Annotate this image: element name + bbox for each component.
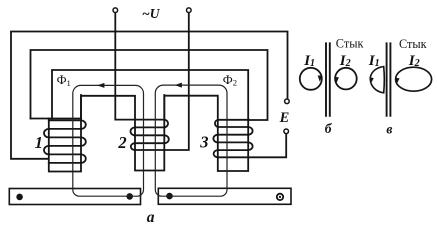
terminal T1: [113, 8, 118, 13]
flux loop PHI1 through coils 1-2 and left rail: [73, 85, 144, 196]
svg-text:Стык: Стык: [399, 37, 427, 51]
wire outer loop top/left: upper-E terminal to coil 1 lower-left: [11, 32, 288, 159]
svg-text:а: а: [147, 209, 155, 225]
flux arrow PHI2: [175, 83, 182, 88]
svg-text:I1: I1: [368, 53, 380, 69]
svg-text:Ф2: Ф2: [223, 73, 237, 88]
coil 2 (winding on core, label 2): [131, 95, 169, 171]
flux loop PHI2 through coils 2-3 and right rail: [155, 85, 227, 196]
svg-text:2: 2: [117, 133, 126, 152]
svg-text:1: 1: [35, 133, 43, 152]
rail bolt dot right-1: [166, 193, 173, 200]
panel v eddy ellipse I2: [396, 67, 432, 91]
rail bar right: [158, 188, 291, 204]
svg-text:~U: ~U: [142, 6, 161, 21]
wire from terminal T2 down to coil 2 right side: [164, 13, 189, 150]
terminal T2: [187, 8, 192, 13]
svg-text:в: в: [386, 121, 392, 136]
rail bolt dot left-2: [126, 193, 133, 200]
panel b arrow on I2: [334, 77, 339, 83]
wire second loop: coil1 top-left to coil3 top-right: [31, 50, 268, 120]
svg-text:б: б: [325, 121, 333, 136]
rail bar left: [9, 189, 140, 205]
rail bolt dot left-1: [16, 194, 23, 201]
coil 3 (winding on core, label 3): [213, 120, 252, 171]
panel b eddy current circle I2: [335, 68, 357, 90]
panel v: rail joint lines: [387, 42, 391, 116]
terminal E upper: [285, 99, 290, 104]
wire bridge A: coil1 top-right to coil2 top-left: [81, 96, 135, 118]
svg-text:E: E: [279, 110, 290, 126]
panel v small eddy loop I1 (D-shape): [370, 67, 384, 93]
wire bridge B: coil2 top-right to coil3 top-left: [164, 96, 218, 118]
flux arrow PHI1: [97, 83, 104, 88]
panel b arrow on I1: [318, 75, 323, 81]
panel b eddy current circle I1: [300, 68, 322, 90]
svg-text:Ф1: Ф1: [57, 73, 71, 88]
coil 1 (winding on core, label 1): [31, 95, 86, 172]
svg-text:Стык: Стык: [336, 37, 364, 51]
terminal E lower: [284, 129, 289, 134]
wire from terminal T1 down to coil 2 top: [115, 13, 135, 120]
panel v arrow on I1: [369, 77, 374, 83]
wire coil3 right side to lower-E terminal: [218, 134, 286, 158]
svg-text:I2: I2: [408, 53, 420, 69]
rail bolt dot right-2 (ring): [277, 194, 283, 200]
wire third loop: coil1 top to coil3 right edge: [52, 70, 248, 120]
svg-text:I2: I2: [339, 53, 351, 69]
svg-text:3: 3: [199, 133, 208, 152]
panel v arrow on I2: [395, 78, 400, 84]
svg-text:I1: I1: [303, 53, 315, 69]
panel b: rail joint lines: [326, 42, 330, 116]
